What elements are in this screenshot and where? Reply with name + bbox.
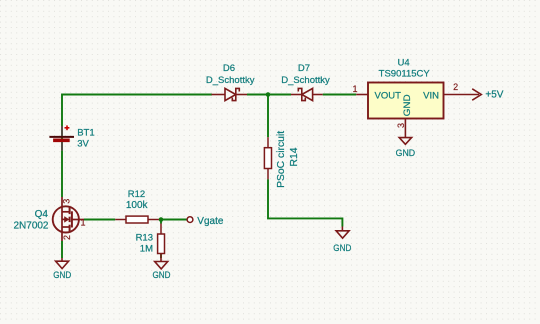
svg-text:1: 1 xyxy=(80,218,85,228)
svg-text:100k: 100k xyxy=(126,200,149,211)
wire Q4 gate to R12 xyxy=(84,219,115,221)
svg-text:GND: GND xyxy=(333,243,351,254)
svg-text:D7: D7 xyxy=(298,63,310,74)
svg-text:D_Schottky: D_Schottky xyxy=(281,75,330,86)
wire D7 anode to U4 pin1 xyxy=(323,94,357,96)
battery BT1 xyxy=(49,125,74,150)
svg-text:D_Schottky: D_Schottky xyxy=(206,75,255,86)
svg-text:D6: D6 xyxy=(223,63,235,74)
resistor R13 xyxy=(158,224,165,259)
svg-text:VIN: VIN xyxy=(423,90,439,101)
svg-text:U4: U4 xyxy=(398,58,410,69)
ground under U4 xyxy=(399,138,411,145)
wire battery bottom to Q4 drain xyxy=(61,151,63,197)
node Vgate open circle xyxy=(187,217,193,223)
node junction top bus to R14 xyxy=(266,92,271,97)
ground under Q4 xyxy=(56,258,69,269)
svg-text:R12: R12 xyxy=(128,189,145,200)
svg-text:1: 1 xyxy=(352,84,357,94)
svg-text:GND: GND xyxy=(153,270,171,281)
resistor R14 PSoC circuit xyxy=(264,137,271,179)
svg-text:3: 3 xyxy=(62,199,72,204)
wire Q4 source to GND xyxy=(61,241,63,258)
svg-text:2: 2 xyxy=(453,82,458,92)
svg-text:R13: R13 xyxy=(136,233,153,244)
wire junction down to R14 xyxy=(267,95,269,138)
svg-text:GND: GND xyxy=(53,270,71,281)
resistor R12 xyxy=(115,216,159,223)
svg-text:GND: GND xyxy=(402,94,413,116)
svg-text:3V: 3V xyxy=(77,138,89,149)
ground of R14 net xyxy=(336,227,349,239)
node junction R12 R13 Vgate xyxy=(159,217,164,222)
svg-text:PSoC circuit: PSoC circuit xyxy=(276,131,287,188)
svg-text:2N7002: 2N7002 xyxy=(13,221,48,232)
wire R12 right to Vgate xyxy=(159,219,187,221)
svg-text:1M: 1M xyxy=(140,244,153,255)
op-amp U1 regulator U4 TS90115CY xyxy=(356,83,479,138)
diode D6 D_Schottky xyxy=(212,88,248,100)
svg-text:Q4: Q4 xyxy=(35,209,49,220)
diode D7 D_Schottky xyxy=(291,88,323,100)
svg-text:+5V: +5V xyxy=(485,90,503,101)
wire R14 bottom to GND net xyxy=(268,179,342,226)
transistor Q2 body Q4 xyxy=(53,197,84,241)
wire battery top to bus corner xyxy=(62,95,212,151)
svg-text:GND: GND xyxy=(396,148,416,159)
ground under R13 xyxy=(155,258,168,269)
wire D6 cathode to D7 cathode xyxy=(247,94,291,96)
wire junction down to R13 xyxy=(160,220,162,224)
svg-text:2: 2 xyxy=(62,235,72,240)
svg-text:VOUT: VOUT xyxy=(375,90,402,101)
svg-text:3: 3 xyxy=(396,123,406,128)
svg-text:R14: R14 xyxy=(289,147,300,166)
svg-text:TS90115CY: TS90115CY xyxy=(379,69,431,80)
wire R13 bottom to GND xyxy=(160,254,162,259)
svg-text:Vgate: Vgate xyxy=(197,216,224,227)
power +5V arrow xyxy=(472,89,481,100)
svg-text:BT1: BT1 xyxy=(77,128,94,139)
